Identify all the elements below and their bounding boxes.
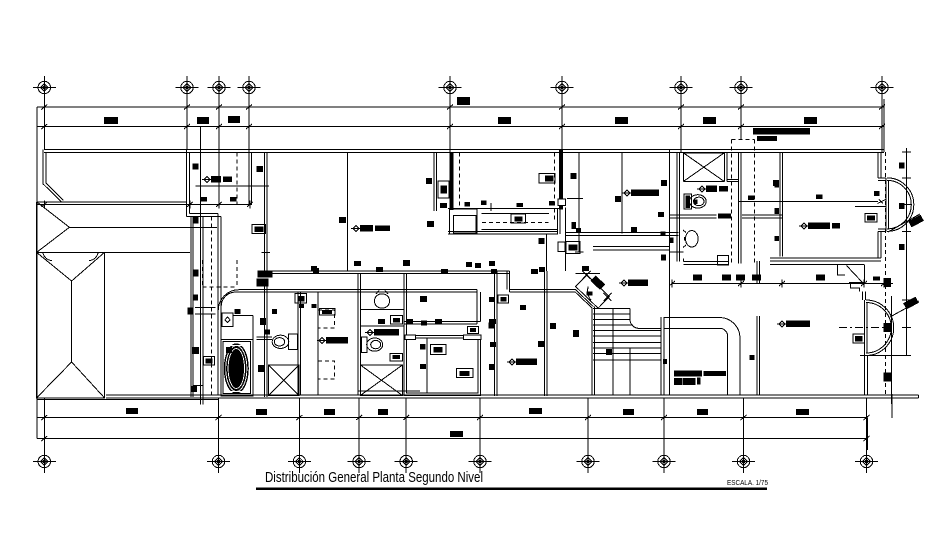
annotation square 23 — [188, 307, 193, 314]
annotation square 50 — [489, 364, 495, 370]
annotation square 77 — [258, 365, 265, 372]
wall interior x250 — [249, 152, 252, 204]
balcony rail lines — [448, 229, 558, 234]
tick marks top dim first — [41, 103, 885, 111]
toilet bath3 tank — [362, 337, 367, 352]
annotation square 67 — [549, 201, 555, 206]
annotation square 81 — [230, 197, 237, 202]
bath3 counter box — [391, 316, 403, 325]
leader line bay1 — [888, 214, 920, 232]
closet box 1 — [431, 344, 446, 354]
dimension text blob 8 — [457, 97, 470, 105]
roof band bottom edge — [37, 251, 190, 253]
axis extension line bottom x=588 — [587, 398, 589, 450]
grid axis bubble bottom 10 — [855, 450, 878, 473]
window wall heavy x451 — [450, 152, 454, 210]
annotation square 85 — [873, 277, 880, 281]
annotation square 2 — [257, 166, 264, 172]
wall interior x546 — [545, 271, 548, 396]
annotation square 11 — [816, 195, 823, 200]
wall dashed closet top-left room — [236, 152, 238, 204]
bathtub rim notch bottom — [230, 391, 243, 393]
dashed box hall upper — [318, 310, 335, 328]
garden wall tick low — [193, 385, 203, 387]
wall interior x758 upper — [757, 261, 760, 283]
annotation square 69 — [572, 222, 577, 229]
annotation square 36 — [441, 269, 448, 274]
annotation square 72 — [440, 203, 447, 208]
bath1 mid wall — [669, 215, 716, 218]
door diamond at chamfer — [576, 275, 610, 308]
axis extension line bottom x=218.5 — [218, 398, 220, 450]
roof band hip diagonal upper — [37, 202, 70, 228]
toilet bath3 bowl — [367, 338, 383, 351]
dressing room box — [498, 295, 509, 303]
right rooms divider ledge — [855, 205, 886, 207]
annotation square 19 — [884, 373, 892, 382]
window box corridor — [320, 309, 336, 316]
annotation square 83 — [750, 355, 755, 360]
axis extension line top x=187 — [186, 99, 188, 150]
annotation square 71 — [427, 221, 434, 227]
shower bath3 X — [360, 365, 402, 396]
roof gutter arc left — [43, 252, 52, 260]
wall interior x565 — [564, 208, 566, 271]
garden wall lines — [191, 217, 193, 398]
bath3 counter line upper — [361, 309, 404, 311]
axis extension line bottom x=406.2 — [405, 398, 407, 450]
dimension text blob 9 — [126, 408, 138, 414]
level label bath3 — [367, 330, 373, 336]
annotation square 5 — [615, 196, 621, 202]
annotation square 64 — [465, 202, 471, 207]
annotation square 30 — [311, 266, 317, 271]
axis extension line top x=450 — [449, 99, 451, 152]
annotation square 78 — [489, 323, 495, 329]
tick marks roof dim — [41, 200, 253, 208]
corridor lower wall west — [236, 290, 478, 293]
annotation square 59 — [752, 275, 761, 281]
annotation text top right line1 — [753, 128, 810, 135]
bathtub ring 2 — [228, 349, 244, 389]
window box wall x435 — [438, 181, 449, 198]
stair rail vertical — [612, 309, 614, 395]
closet top window west — [405, 335, 416, 340]
dimension line right bay vertical — [906, 148, 908, 356]
annotation square 70 — [339, 217, 346, 223]
bath1 door lintel — [727, 179, 739, 181]
door corner X mark 1 — [583, 271, 591, 279]
annotation square 20 — [193, 217, 199, 224]
corridor lower wall east — [510, 290, 576, 293]
dimension text blob 14 — [623, 409, 634, 415]
dimension line right vertical — [867, 418, 869, 451]
roof lower ridge — [71, 281, 73, 362]
stair rail lower — [629, 348, 631, 395]
annotation square 40 — [491, 269, 497, 274]
closet corner box — [468, 327, 479, 334]
grid axis bubble top 8 — [730, 76, 753, 99]
annotation square 7 — [773, 180, 779, 186]
annotation square 28 — [258, 271, 273, 278]
wall right above bay 2 — [863, 292, 866, 301]
balcony dashed rail — [482, 221, 548, 223]
grid axis bubble bottom 1 — [33, 450, 56, 473]
wall x265 dim ticks — [195, 186, 270, 252]
tick end x579 wall — [575, 251, 584, 253]
dimension text blob 2 — [197, 117, 209, 124]
door dim line — [576, 273, 601, 275]
axis extension line bottom x=359.1 — [358, 398, 360, 450]
annotation square 55 — [313, 268, 319, 273]
axis extension line top x=562 — [561, 99, 563, 150]
dimension text blob 15 — [697, 409, 708, 415]
level label bedroom2 — [624, 190, 630, 196]
toilet bath2 tank — [289, 334, 298, 349]
bathtub ring 1 — [226, 346, 247, 392]
annotation square 49 — [420, 364, 426, 369]
window box below x562 — [558, 199, 566, 206]
annotation square 31 — [354, 261, 361, 266]
wall interior x740 — [739, 152, 742, 263]
annotation square 46 — [407, 319, 413, 324]
door swing arc — [588, 287, 592, 301]
window box right room — [865, 214, 877, 222]
bath window box bottom — [718, 256, 729, 265]
dimension line bottom first — [37, 417, 868, 419]
axis extension line top x=249 — [248, 99, 250, 152]
annotation square 14 — [899, 163, 905, 169]
sink bath1 — [686, 231, 699, 247]
annotation square 22 — [194, 295, 199, 301]
axis extension line bottom x=664 — [663, 398, 665, 450]
annotation square 6 — [661, 180, 667, 186]
wall bath2 east — [298, 292, 301, 394]
grid axis bubble top 2 — [176, 76, 199, 99]
right facade rail line — [891, 296, 893, 404]
bathtub inner — [223, 342, 250, 394]
sink bath3 round — [374, 294, 389, 308]
balcony label blob — [515, 216, 523, 221]
dimension text blob 3 — [228, 116, 240, 123]
dimension text blob 16 — [796, 409, 809, 415]
bay window 2 chord wall — [865, 300, 868, 356]
balcony east edge — [557, 209, 560, 235]
title underline bar — [256, 488, 767, 491]
dimension text blob 5 — [615, 117, 628, 124]
annotation square 65 — [481, 201, 487, 206]
annotation square 54 — [226, 347, 232, 353]
annotation square 1 — [193, 164, 199, 170]
vestidor west wall — [404, 273, 407, 335]
svg-text:ESCALA. 1/75: ESCALA. 1/75 — [727, 478, 768, 487]
balcony label box — [511, 214, 526, 223]
wall segment y233 east — [565, 233, 678, 236]
annotation square 27 — [312, 304, 317, 308]
balcony rail second line — [481, 212, 549, 214]
dimension text blob 17 — [450, 431, 463, 437]
tick marks top dim second — [41, 123, 885, 131]
wall right upper exterior — [878, 152, 881, 178]
annotation square 73 — [378, 319, 385, 324]
annotation square 26 — [299, 304, 304, 308]
axis extension line top x=681 — [680, 99, 682, 153]
dimension text blob 12 — [378, 409, 388, 415]
bath3 counter line lower — [361, 325, 404, 327]
corridor chamfer wall — [575, 290, 593, 308]
stair treads — [593, 309, 661, 361]
window box patio wall — [204, 357, 215, 366]
entry steps diagonal — [847, 266, 863, 283]
level label living — [779, 321, 785, 327]
right rooms divider — [739, 200, 878, 202]
level label bedroom right — [801, 223, 807, 229]
wall stair west — [592, 307, 595, 395]
closet box 1 blob — [434, 347, 443, 353]
wall dashed x554 — [553, 152, 555, 222]
floor projection dashed lines — [732, 140, 755, 266]
bay window 2 arc — [866, 300, 894, 356]
leader blob bay2 — [903, 297, 919, 310]
annotation square 79 — [420, 344, 426, 350]
annotation square 33 — [376, 267, 383, 272]
annotation square 21 — [194, 269, 199, 276]
annotation square 35 — [191, 386, 197, 392]
annotation square 90 — [576, 228, 581, 233]
annotation square 80 — [201, 197, 208, 202]
eave line left — [200, 127, 203, 405]
svg-text:Distribución General Planta Se: Distribución General Planta Segundo Nive… — [265, 469, 483, 486]
annotation square 47 — [489, 319, 496, 324]
level label dressing — [509, 359, 515, 365]
annotation square 34 — [192, 347, 199, 354]
annotation square 8 — [631, 227, 637, 233]
bath3 box — [390, 353, 403, 361]
axis extension line bottom x=44.3 — [43, 398, 45, 450]
dimension text blob 1 — [104, 117, 118, 124]
leader line bay2 — [890, 301, 919, 317]
grid axis bubble top 6 — [551, 76, 574, 99]
annotation square 87 — [670, 238, 674, 244]
duct shaft box — [683, 153, 727, 182]
grid axis bubble bottom 6 — [469, 450, 492, 473]
duct shaft X cross — [683, 153, 724, 182]
dimension line interior right rooms — [672, 283, 893, 285]
balcony planter box — [450, 209, 477, 234]
bath block bottom wall — [683, 259, 728, 265]
stair top edge — [592, 308, 594, 310]
room title text block — [674, 370, 683, 376]
grid axis bubble bottom 3 — [288, 450, 311, 473]
grid axis bubble bottom 4 — [348, 450, 371, 473]
bathtub rim notch top — [231, 345, 242, 347]
annotation square 24 — [235, 309, 241, 314]
door threshold dark bath1 — [718, 214, 731, 219]
roof band ridge — [69, 226, 217, 228]
toilet bath1 bowl — [689, 195, 706, 208]
right rooms bottom wall — [770, 258, 881, 261]
grid axis bubble top 4 — [238, 76, 261, 99]
annotation square 42 — [539, 267, 545, 272]
bath2 shelf line — [233, 315, 253, 339]
bay window top recess upper — [878, 178, 886, 181]
wall interior x435 — [434, 152, 437, 211]
dashed box hall lower — [318, 361, 335, 379]
annotation square 37 — [466, 262, 472, 267]
annotation square 44 — [420, 296, 427, 302]
hall white box — [558, 242, 565, 252]
toilet bath2 bowl — [272, 335, 289, 348]
annotation square 39 — [489, 261, 495, 266]
annotation square 17 — [884, 278, 892, 287]
window box hall — [566, 242, 580, 254]
stair handrail curve — [630, 309, 661, 329]
annotation square 51 — [490, 342, 496, 347]
wall right mid exterior — [878, 231, 881, 258]
annotation square 4 — [571, 173, 577, 179]
annotation square 62 — [550, 323, 556, 329]
annotation square 84 — [663, 359, 667, 364]
tick marks interior dim — [669, 280, 887, 288]
annotation square 61 — [573, 330, 579, 337]
level label stair hall — [621, 280, 627, 286]
wall interior x622 — [621, 152, 623, 233]
annotation square 63 — [520, 305, 526, 310]
annotation square 60 — [816, 275, 825, 281]
annotation square 29 — [257, 279, 269, 287]
level label room top-left — [204, 177, 210, 183]
shower bath2 X — [269, 365, 299, 396]
entry steps exterior — [837, 265, 864, 292]
wall right below bay 2 — [865, 356, 868, 395]
terrace parapet top wall — [44, 150, 884, 153]
annotation square 76 — [265, 330, 270, 335]
divider blob — [748, 196, 754, 201]
bath3 wall ledge — [358, 390, 420, 392]
balcony planter inner — [453, 216, 476, 233]
dimension text blob 6 — [703, 117, 716, 124]
bath3 box blob — [392, 355, 400, 359]
tick marks bottom dim first — [41, 414, 869, 422]
bathtub outline — [221, 339, 253, 396]
annotation square 74 — [421, 321, 427, 326]
door diamond dark leaf — [591, 276, 606, 290]
wall interior x347 — [347, 152, 349, 270]
wall left step — [186, 214, 221, 217]
annotation square 86 — [661, 232, 666, 236]
eave dashed line left — [211, 217, 213, 398]
closet box 2 blob — [460, 371, 470, 376]
window wall heavy x562 — [559, 150, 563, 210]
shower bath2 box — [269, 365, 299, 396]
wall x546 upper line — [545, 234, 547, 271]
dimension line bottom second — [37, 438, 868, 440]
shower bath3 box — [360, 365, 402, 396]
grid axis bubble top 1 — [33, 76, 56, 99]
wall hall closet x318 — [317, 292, 319, 394]
right facade dashed line — [885, 152, 887, 394]
dimension line left roof — [37, 203, 252, 205]
grid axis bubble top 9 — [871, 76, 894, 99]
tick wall x579 — [567, 198, 583, 200]
grid axis bubble bottom 8 — [653, 450, 676, 473]
annotation square 18 — [884, 323, 892, 332]
annotation square 89 — [694, 200, 698, 205]
annotation square 41 — [531, 269, 538, 274]
bay window 1 chord wall — [886, 178, 889, 231]
wall left upper exterior — [186, 150, 189, 217]
balcony top edge — [448, 208, 560, 210]
annotation square 15 — [899, 203, 905, 209]
wall interior x265 lower — [265, 286, 268, 397]
roof gutter arc right — [89, 252, 98, 260]
toilet bath1 tank — [684, 194, 692, 209]
door leaf small blob — [587, 292, 593, 296]
vestidor nook wall — [404, 290, 481, 325]
closet top window east — [463, 335, 481, 340]
wall interior x265 upper — [265, 152, 268, 270]
grid axis bubble bottom 5 — [395, 450, 418, 473]
grid axis bubble bottom 7 — [577, 450, 600, 473]
bath niche line — [669, 251, 683, 253]
stair hall curved wall — [664, 318, 740, 395]
level label bath1 — [699, 186, 705, 192]
annotation square 88 — [661, 255, 666, 261]
wall left lower exterior — [218, 214, 221, 395]
corridor wall fillet — [218, 290, 239, 311]
dimension text blob 11 — [324, 409, 335, 415]
hall center dash-dot line — [839, 327, 892, 329]
bathtub basin dark — [224, 343, 249, 393]
window box living — [853, 334, 865, 343]
annotation square 56 — [693, 275, 702, 281]
grid axis bubble bottom 9 — [732, 450, 755, 473]
axis extension line bottom x=743.5 — [743, 398, 745, 450]
closet inner wall — [406, 338, 478, 393]
axis extension line top x=44.3 — [43, 99, 45, 150]
closet box 2 — [456, 369, 473, 378]
annotation square 10 — [775, 182, 780, 188]
dimension line top second — [37, 126, 884, 128]
annotation square 43 — [582, 266, 589, 271]
axis extension line bottom x=299.4 — [298, 398, 300, 450]
annotation square 68 — [539, 238, 545, 244]
axis extension line top x=882 — [881, 99, 883, 152]
right rooms floor edge line — [770, 263, 865, 265]
garden wall tick lines — [195, 308, 216, 315]
door corner X mark 2 — [604, 293, 612, 301]
axis extension line bottom x=480 — [479, 398, 481, 450]
grid axis bubble bottom 2 — [207, 450, 230, 473]
corridor sink box — [295, 294, 307, 304]
annotation square 48 — [489, 297, 495, 302]
site bottom edge — [37, 399, 219, 401]
roof lower hip diagonals — [37, 252, 105, 398]
axis extension line top x=741 — [740, 99, 742, 140]
grid axis bubble top 7 — [670, 76, 693, 99]
annotation square 75 — [260, 318, 266, 325]
annotation square 57 — [722, 275, 731, 281]
axis extension line top x=219 — [218, 99, 220, 204]
wall interior x359 — [358, 273, 361, 394]
annotation square 32 — [403, 260, 410, 266]
annotation square 13 — [775, 236, 780, 241]
tick marks right bay dim — [860, 152, 911, 355]
window band center — [593, 246, 670, 250]
corridor upper wall — [267, 271, 510, 274]
dimension text blob 7 — [804, 117, 817, 124]
wall bath block west — [669, 150, 679, 395]
